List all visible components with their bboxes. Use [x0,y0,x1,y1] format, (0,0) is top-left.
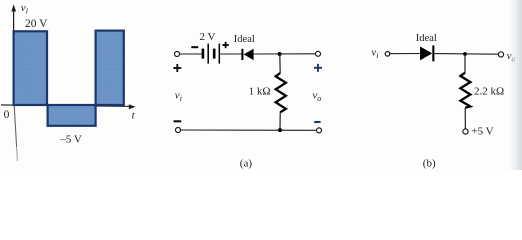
diode D1 triangle [244,49,254,60]
waveform pulse 2 (20 V) [96,31,124,105]
svg-text:(b): (b) [423,158,436,170]
wire input to diode (b) [390,53,420,55]
input minus sign (a) [174,120,182,122]
battery long plate 2 [218,44,220,64]
resistor R 1 kOhm lead top [279,54,281,73]
terminal: output (b) [498,52,503,57]
wire battery to diode [220,53,241,55]
battery minus sign [191,46,198,48]
resistor 2.2 kOhm lead bottom [464,108,466,129]
svg-text:0: 0 [4,109,10,121]
input plus sign (a) [173,64,181,72]
v axis tail below origin [14,106,16,148]
junction node (b) [463,52,467,56]
terminal: output top (a) [316,51,321,56]
junction node top (a) [278,52,282,56]
resistor R 1 kOhm zigzag [276,73,286,112]
junction node bottom (a) [278,128,282,132]
terminal: output bottom (a) [317,128,322,133]
resistor 2.2 kOhm zigzag [460,73,470,108]
terminal: input top (a) [175,52,180,57]
battery E 2V: short plate 1 [202,49,205,59]
diode D2 cathode bar [432,45,434,61]
diode D2 (ideal, pointing right) triangle [420,46,432,60]
svg-text:Ideal: Ideal [234,34,255,45]
t axis [1,104,136,109]
svg-text:1 kΩ: 1 kΩ [249,86,271,98]
battery long plate 1 [207,44,209,64]
diode D1 (ideal, pointing left) cathode bar [241,49,243,60]
wire terminal to battery [180,53,202,55]
terminal: +5V supply (b) [463,129,468,134]
svg-text:+5 V: +5 V [471,125,493,137]
svg-text:2 V: 2 V [200,31,216,43]
svg-text:(a): (a) [240,158,253,170]
terminal: input (b) [385,52,390,57]
resistor 2.2 kOhm lead top [464,54,466,73]
svg-text:2.2 kΩ: 2.2 kΩ [474,86,504,98]
resistor R 1 kOhm lead bottom [279,112,281,130]
battery plus sign [222,42,228,48]
right page-edge shading [509,0,522,170]
output minus sign (a), blue [314,121,320,123]
waveform pulse 1 (20 V) [14,31,47,105]
wire diode to junction to output terminal [254,53,316,55]
svg-text:Ideal: Ideal [416,33,437,44]
svg-text:–5 V: –5 V [59,133,82,145]
wire diode to junction to output (b) [435,53,499,56]
svg-text:20 V: 20 V [25,18,48,30]
battery short plate 2 [213,49,216,59]
v axis [11,4,16,105]
bottom wire (a) [181,129,317,131]
terminal: input bottom (a) [176,128,181,133]
output plus sign (a), blue [314,64,322,72]
waveform negative pulse (-5 V) [48,105,96,126]
